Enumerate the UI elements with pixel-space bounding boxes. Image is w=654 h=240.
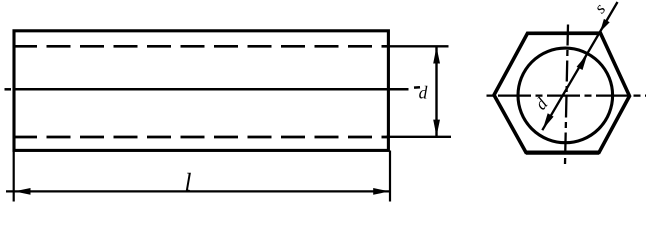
arrowhead d down [433, 120, 440, 137]
side view outline [14, 31, 388, 151]
arrowhead s at hexagon corner [600, 19, 610, 32]
hexagon vertical centerline [565, 25, 568, 165]
extension line d bottom [386, 136, 451, 138]
inscribed circle [518, 48, 613, 143]
dimension line L [6, 190, 390, 192]
hexagon bottom flat (heavier) [526, 151, 599, 155]
svg-text:s: s [590, 0, 609, 17]
svg-text:d: d [419, 82, 428, 102]
hexagon horizontal centerline [487, 94, 647, 96]
hidden line top [13, 45, 387, 48]
arrowhead d diagonal lower [543, 113, 554, 129]
dimension line d diagonal with s leader [542, 2, 617, 130]
hidden line bottom [13, 136, 387, 139]
hexagon outline [494, 33, 630, 152]
arrowhead d diagonal upper [577, 54, 588, 70]
arrowhead L left [14, 188, 30, 195]
axis centerline [5, 87, 421, 89]
extension line d top [382, 45, 449, 47]
extension line L left [13, 151, 15, 202]
dimension line d [435, 46, 437, 137]
svg-text:l: l [185, 170, 192, 197]
extension line L right [389, 151, 391, 202]
arrowhead d up [433, 47, 440, 64]
arrowhead L right [373, 188, 389, 195]
